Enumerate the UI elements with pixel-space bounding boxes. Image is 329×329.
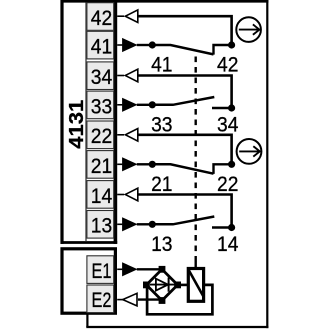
contact step 22 [214, 164, 232, 174]
arrow in terminal 13 [117, 223, 122, 225]
lower box outline [62, 249, 115, 313]
node rectifier left [143, 282, 150, 289]
svg-text:34: 34 [91, 64, 112, 89]
svg-text:21: 21 [151, 171, 172, 196]
svg-text:41: 41 [151, 52, 172, 77]
terminal strip upper outline [61, 0, 118, 244]
svg-text:14: 14 [91, 183, 112, 208]
node 42 [228, 41, 235, 48]
svg-text:E1: E1 [92, 258, 112, 283]
terminal box 22 [87, 121, 114, 149]
terminal box 14 [87, 181, 114, 209]
contact blade 21-22 [152, 164, 213, 173]
contact 33-34 (NO) [117, 69, 235, 111]
terminal box 41 [87, 31, 114, 59]
frame bottom line [86, 326, 268, 328]
svg-text:14: 14 [217, 231, 238, 256]
actuation direction symbol 2 [237, 139, 262, 164]
wire 33 [137, 104, 153, 106]
arrow out terminal 22 [117, 134, 124, 136]
mechanical linkage dashed line [194, 57, 196, 263]
node 34 [228, 104, 235, 111]
frame connector at x=87 [86, 312, 88, 327]
wire 14 rail [138, 195, 232, 228]
contact stub 14 [212, 226, 232, 228]
arrow in terminal 21 [117, 163, 122, 165]
svg-text:22: 22 [217, 171, 238, 196]
arrow out terminal E2 [117, 293, 137, 306]
svg-text:E2: E2 [92, 287, 112, 312]
diode inside rectifier [150, 284, 176, 286]
terminal box 34 [87, 62, 114, 90]
contact step 42 [214, 45, 232, 55]
wire E2 to rectifier [138, 298, 162, 300]
frame right line [266, 0, 268, 328]
node 33 [149, 101, 156, 108]
contact blade 33-34 [152, 97, 214, 105]
contact blade 41-42 [152, 45, 213, 54]
svg-text:42: 42 [91, 5, 112, 30]
node 22 [228, 161, 235, 168]
svg-text:22: 22 [91, 123, 112, 148]
svg-text:13: 13 [151, 231, 172, 256]
svg-text:34: 34 [217, 111, 238, 136]
svg-text:33: 33 [151, 111, 172, 136]
contact 41-42 (NC) [117, 10, 235, 55]
terminal box E2 [87, 285, 114, 313]
terminal box 42 [87, 3, 114, 31]
wire 34 rail [138, 76, 232, 109]
wire 41 [137, 44, 153, 46]
terminal box 13 [87, 211, 114, 239]
terminal box 21 [87, 151, 114, 179]
svg-text:41: 41 [91, 34, 112, 59]
wire 13 [137, 223, 153, 225]
frame top line [61, 0, 269, 3]
wire 21 [137, 163, 153, 165]
bridge rectifier diamond [143, 266, 181, 304]
linkage stub to solenoid [194, 262, 196, 268]
svg-text:4131: 4131 [65, 100, 88, 149]
node 13 [149, 221, 156, 228]
arrow out terminal 14 [117, 194, 124, 196]
wire 22 rail [138, 135, 232, 165]
node 41 [149, 41, 156, 48]
svg-text:33: 33 [91, 93, 112, 118]
node rectifier bottom [159, 297, 166, 304]
svg-text:21: 21 [91, 153, 112, 178]
wire rectifier to solenoid [178, 284, 189, 287]
arrow in terminal 33 [117, 104, 122, 106]
arrow in terminal E1 [117, 263, 136, 276]
contact 13-14 (NO) [117, 188, 235, 231]
wire solenoid return loop [147, 285, 212, 314]
actuation direction symbol 1 [236, 17, 261, 42]
node 14 [228, 224, 235, 231]
contact blade 13-14 [152, 217, 214, 225]
svg-text:13: 13 [91, 213, 112, 238]
node rectifier top [159, 266, 166, 273]
node 21 [149, 161, 156, 168]
arrow out terminal 42 [117, 15, 124, 17]
wire 42 rail [138, 16, 232, 45]
contact 21-22 (NC) [117, 129, 235, 174]
solenoid coil [188, 269, 203, 302]
terminal box E1 [87, 256, 114, 284]
arrow in terminal 41 [117, 44, 122, 46]
svg-text:42: 42 [217, 52, 238, 77]
contact stub 34 [212, 107, 232, 109]
node rectifier right [174, 282, 181, 289]
terminal box 33 [87, 91, 114, 119]
wire E1 to rectifier [137, 268, 162, 270]
arrow out terminal 34 [117, 75, 124, 77]
